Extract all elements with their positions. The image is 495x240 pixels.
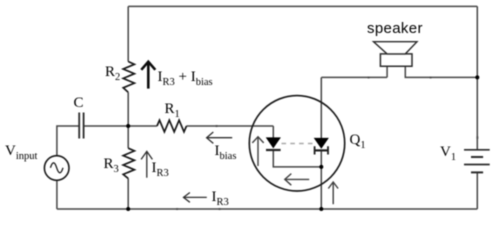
label I_R3 + I_bias (158, 69, 213, 88)
arrow left inside Q1 (bottom) (285, 174, 309, 186)
wire input top (57, 126, 79, 156)
resistor R1 (157, 120, 187, 132)
arrow up I_R3 (beside R3) (141, 151, 152, 177)
wire R2 to node (127, 92, 129, 126)
dashed coupling line (282, 143, 314, 145)
wire drain down from speaker (320, 77, 322, 138)
label I_R3 (beside R3) (152, 160, 169, 179)
transistor Q1 circle (249, 96, 344, 191)
arrow bold up I_R3+I_bias (141, 62, 155, 89)
wire right rail lower (476, 173, 478, 209)
drain diode (right, pointing down) (314, 138, 328, 148)
gate diode bar (266, 149, 281, 151)
wire gate diode to source node (273, 151, 321, 167)
wire bottom rail (57, 208, 477, 210)
label R1 (165, 101, 180, 120)
AC source V_input (44, 156, 69, 181)
wire R1 to gate (187, 125, 274, 127)
wire drain diode to bottom rail (320, 151, 322, 209)
arrow left I_R3 (bottom) (184, 193, 207, 203)
wire R3 to bottom rail (127, 178, 129, 209)
node dot speaker right rail (475, 75, 479, 79)
wire speaker left (321, 66, 387, 77)
label R3 (104, 156, 119, 175)
node dot Q1 source (319, 165, 323, 169)
label Q1 (350, 132, 366, 151)
arrow up inside Q1 (left) (252, 137, 263, 166)
wire right rail upper (476, 6, 478, 149)
label I_R3 (bottom) (212, 189, 229, 208)
label C (74, 95, 84, 112)
arrow left I_bias (207, 132, 233, 143)
wire node to R3 (127, 126, 129, 148)
speaker symbol (380, 54, 412, 66)
wire left branch top (to R2) (127, 6, 129, 61)
wire gate down inside Q1 (272, 126, 274, 138)
label V1 (440, 144, 456, 163)
node dot divider bottom (126, 207, 130, 211)
battery V1 (464, 150, 490, 173)
drain diode bar with end ticks (314, 149, 328, 151)
wire speaker right (405, 66, 477, 77)
node dot Q1 bottom rail (319, 207, 323, 211)
wire top rail (128, 5, 477, 7)
label V_input (5, 143, 37, 162)
arrow up at Q1 source lead (328, 182, 338, 204)
label speaker (367, 20, 423, 37)
capacitor C (79, 113, 83, 139)
resistor R3 (123, 148, 134, 178)
wire source to bottom rail (56, 180, 58, 209)
node dot divider mid (126, 124, 130, 128)
wire joint nubs (176, 77, 478, 211)
resistor R2 (123, 62, 134, 93)
label R2 (105, 64, 120, 83)
gate diode (left, pointing down) (266, 138, 280, 148)
label I_bias (215, 143, 237, 162)
wire cap to node (84, 125, 157, 127)
